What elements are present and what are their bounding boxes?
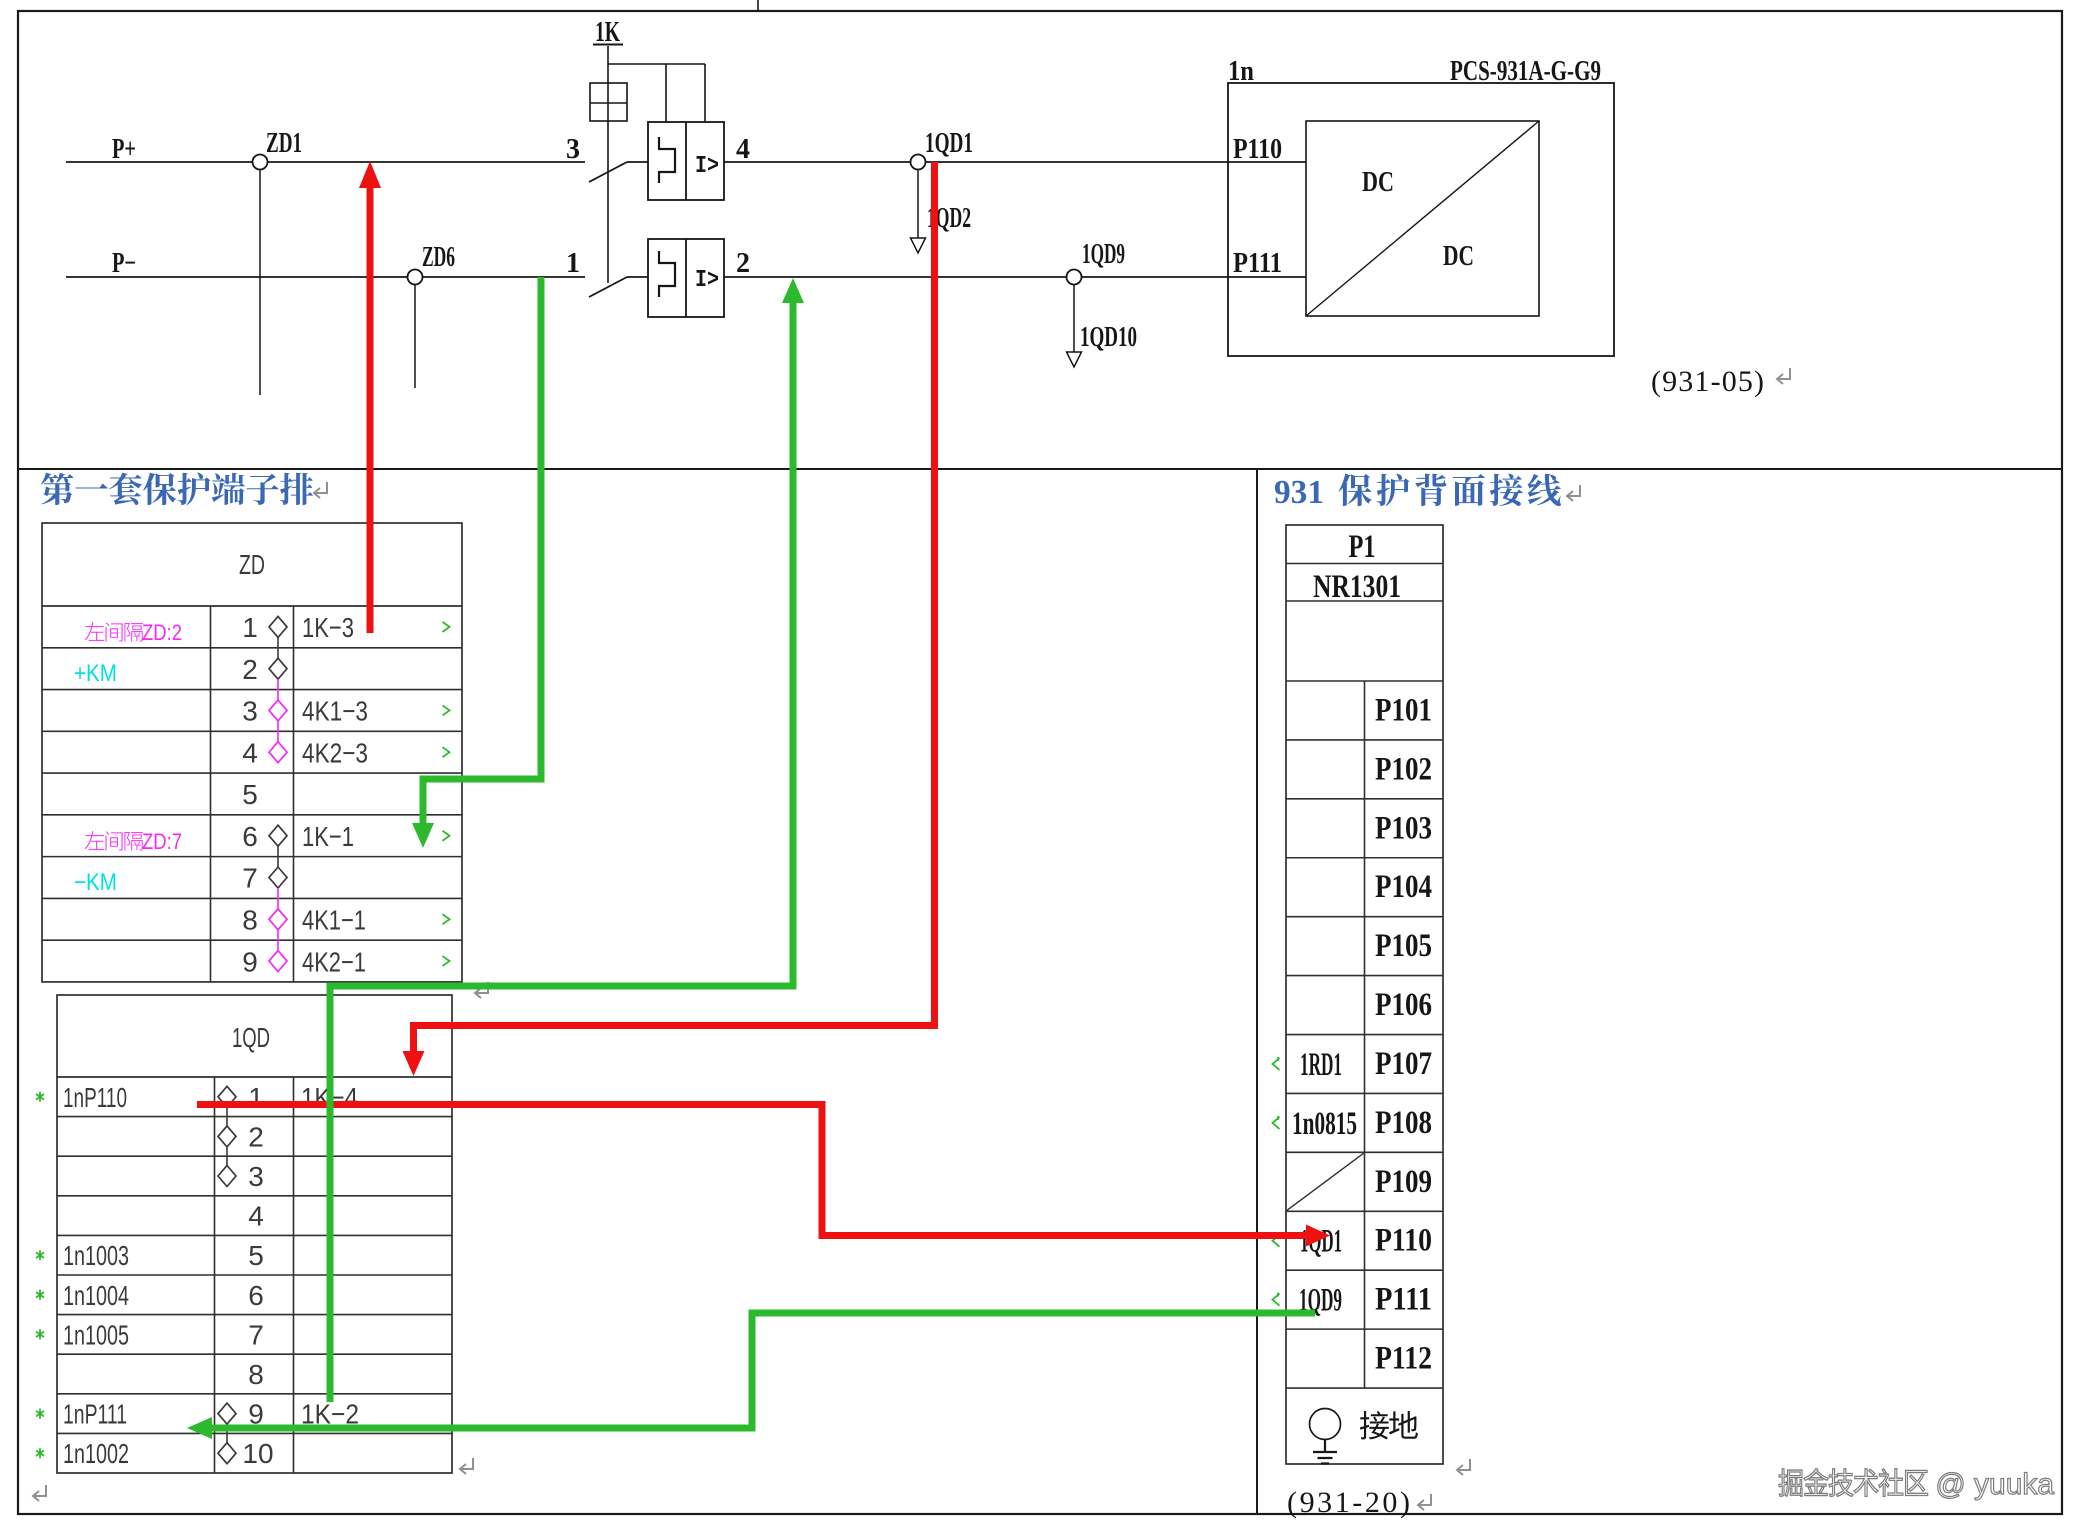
svg-text:I>: I> (695, 153, 719, 180)
arrow 1QD10 open triangle (1067, 352, 1082, 367)
svg-text:10: 10 (242, 1438, 273, 1469)
node ZD6 (408, 270, 423, 285)
svg-text:1nP111: 1nP111 (63, 1399, 127, 1430)
green arrowhead left into 1nP111 (187, 1417, 212, 1439)
svg-text:P111: P111 (1233, 248, 1282, 279)
red arrowhead right into P110 (1306, 1225, 1330, 1247)
svg-text:ZD:7: ZD:7 (142, 829, 182, 854)
1QD terminal 3 diamond (218, 1166, 236, 1187)
1QD row 9 green star (36, 1409, 44, 1419)
switch blade 1K upper (589, 162, 627, 182)
1QD terminal 10 diamond (218, 1443, 236, 1464)
ZD jumper 8-9 (277, 930, 279, 951)
svg-text:2: 2 (736, 248, 750, 279)
switch blade 1K lower (589, 277, 627, 297)
return mark bottom left (33, 1485, 46, 1501)
svg-text:DC: DC (1443, 241, 1474, 272)
svg-text:3: 3 (248, 1161, 264, 1192)
1QD row 5 green star (36, 1250, 44, 1260)
svg-text:P103: P103 (1375, 810, 1432, 846)
svg-text:P112: P112 (1375, 1341, 1432, 1377)
svg-text:1: 1 (566, 248, 580, 279)
svg-text:3: 3 (242, 696, 258, 727)
svg-text:8: 8 (248, 1359, 264, 1390)
svg-text:PCS-931A-G-G9: PCS-931A-G-G9 (1450, 56, 1601, 87)
wire 2 to P111 (724, 276, 1306, 278)
wire ZD6 stub (414, 285, 416, 389)
ZD terminal 8 diamond (269, 909, 287, 930)
svg-text:I>: I> (695, 267, 719, 294)
return mark after (931-05) (1777, 368, 1790, 384)
svg-text:(931-05): (931-05) (1651, 365, 1764, 398)
green wire terminal2 to 1QD9 (330, 301, 793, 1402)
wire 1QD10 stem (1073, 285, 1075, 353)
ZD row 1 green chevron (443, 622, 450, 632)
breaker 1K top branch (608, 64, 705, 122)
ZD terminal 2 diamond (269, 658, 287, 679)
svg-text:7: 7 (242, 863, 258, 894)
svg-text:P108: P108 (1375, 1105, 1432, 1141)
DC-DC converter box (1306, 121, 1539, 316)
heading first protection terminal strip (41, 473, 73, 505)
svg-text:P104: P104 (1375, 869, 1432, 905)
svg-text:5: 5 (248, 1240, 264, 1271)
P1 row P111 green mark (1273, 1293, 1280, 1306)
ZD row label 左间隔ZD:7 (85, 831, 105, 850)
1QD row 10 green star (36, 1448, 44, 1458)
red wire ZD1 arrowhead up (359, 161, 381, 188)
svg-text:1QD9: 1QD9 (1082, 239, 1125, 270)
watermark juejin community (1779, 1469, 1802, 1497)
top edge tick (757, 0, 759, 11)
P1 module table grid (1286, 525, 1443, 1464)
svg-text:5: 5 (242, 779, 258, 810)
svg-text:NR1301: NR1301 (1313, 569, 1401, 605)
thermal trip curve upper (659, 137, 675, 183)
1QD terminal 1 diamond (218, 1086, 236, 1107)
svg-text:P+: P+ (112, 134, 136, 165)
green arrowhead down into ZD6 row (412, 823, 434, 848)
svg-text:1QD: 1QD (232, 1022, 270, 1053)
ZD row 3 green chevron (443, 705, 450, 715)
ZD row 9 green chevron (443, 956, 450, 966)
svg-text:2: 2 (248, 1121, 264, 1152)
device 1n outline (1228, 83, 1614, 356)
svg-text:@ yuuka: @ yuuka (1927, 1468, 2054, 1501)
svg-text:P107: P107 (1375, 1046, 1432, 1082)
1QD jumper 2-3 (226, 1147, 228, 1166)
svg-text:1n1004: 1n1004 (63, 1280, 129, 1311)
ZD jumper 7-8 (277, 888, 279, 909)
1QD jumper 9-10 (226, 1424, 228, 1443)
ZD jumper 2-3 (277, 679, 279, 700)
svg-text:1: 1 (242, 612, 258, 643)
red wire ZD1 to 1K-3 (shaft) (367, 186, 374, 633)
svg-text:9: 9 (242, 946, 258, 977)
svg-text:4K2−3: 4K2−3 (302, 737, 368, 768)
svg-text:DC: DC (1362, 167, 1394, 198)
section separator horizontal (18, 468, 2062, 470)
svg-text:1QD1: 1QD1 (925, 128, 973, 159)
svg-text:1n: 1n (1228, 56, 1254, 87)
svg-text:1n0815: 1n0815 (1292, 1106, 1357, 1142)
return mark after (931-20) (1418, 1494, 1431, 1510)
arrow 1QD2 open triangle (911, 238, 926, 253)
svg-text:7: 7 (248, 1319, 264, 1350)
return mark after right heading (1567, 485, 1580, 501)
svg-text:1QD10: 1QD10 (1080, 322, 1137, 353)
ZD terminal 1 diamond (269, 616, 287, 637)
svg-text:P109: P109 (1375, 1164, 1432, 1200)
node 1QD9 (1067, 270, 1082, 285)
svg-text:1: 1 (248, 1082, 264, 1113)
svg-text:6: 6 (248, 1280, 264, 1311)
ZD terminal 4 diamond (269, 742, 287, 763)
label 接地 (1360, 1411, 1389, 1440)
node 1QD1 (911, 155, 926, 170)
breaker 1K label underline (593, 44, 623, 46)
svg-text:ZD:2: ZD:2 (142, 620, 182, 645)
ZD terminal 6 diamond (269, 825, 287, 846)
red arrowhead down into 1QD (403, 1051, 425, 1076)
trip unit box lower (648, 239, 724, 317)
ZD jumper 3-4 (277, 721, 279, 742)
wire P+ bus (66, 161, 585, 163)
svg-text:8: 8 (242, 905, 258, 936)
svg-text:P110: P110 (1233, 134, 1282, 165)
wire 4 to P110 (724, 161, 1306, 163)
P1 row P110 green mark (1273, 1234, 1280, 1247)
svg-text:931: 931 (1274, 474, 1324, 511)
ZD jumper 1-2 (277, 637, 279, 658)
svg-text:P105: P105 (1375, 928, 1432, 964)
svg-text:4: 4 (242, 737, 258, 768)
wire 1QD2 stem (917, 170, 919, 239)
svg-text:1nP110: 1nP110 (63, 1082, 127, 1113)
svg-text:1n1002: 1n1002 (63, 1438, 129, 1469)
return mark after P1 table (1457, 1459, 1470, 1475)
svg-text:4: 4 (248, 1201, 264, 1232)
svg-text:P102: P102 (1375, 751, 1432, 787)
ZD terminal table grid (42, 523, 462, 982)
svg-text:1K: 1K (595, 17, 620, 48)
node ZD1 (253, 155, 268, 170)
svg-text:−KM: −KM (74, 869, 117, 896)
P109 spare diagonal (1287, 1153, 1364, 1210)
svg-text:4K1−3: 4K1−3 (302, 696, 368, 727)
svg-text:1n1005: 1n1005 (63, 1319, 129, 1350)
1QD row 6 green star (36, 1290, 44, 1300)
P1 row P108 green mark (1273, 1116, 1280, 1129)
1QD terminal table grid (57, 995, 452, 1473)
1QD row 7 green star (36, 1329, 44, 1339)
green wire P111 to 1nP111 (211, 1313, 1315, 1428)
green wire ZD6 to 1K-1 (423, 277, 541, 824)
svg-text:P110: P110 (1375, 1223, 1432, 1259)
return mark after ZD table (475, 982, 488, 998)
wire contact to trip box upper (627, 161, 648, 163)
ZD terminal 9 diamond (269, 951, 287, 972)
ZD row 8 green chevron (443, 914, 450, 924)
svg-text:ZD6: ZD6 (422, 242, 455, 273)
1QD jumper 1-2 (226, 1107, 228, 1126)
1QD terminal 2 diamond (218, 1126, 236, 1147)
svg-text:P1: P1 (1349, 529, 1376, 565)
svg-text:6: 6 (242, 821, 258, 852)
red wire 1QD1 to P110 (197, 1105, 1307, 1236)
1QD row 1 green star (36, 1092, 44, 1102)
ZD row label 左间隔ZD:2 (85, 622, 105, 641)
svg-text:1K−1: 1K−1 (302, 821, 354, 852)
svg-text:P111: P111 (1375, 1282, 1432, 1318)
svg-text:ZD: ZD (239, 549, 265, 580)
1QD terminal 9 diamond (218, 1403, 236, 1424)
ZD row 4 green chevron (443, 747, 450, 757)
breaker 1K coil box (590, 83, 627, 121)
svg-text:1n1003: 1n1003 (63, 1240, 129, 1271)
svg-text:P−: P− (112, 248, 136, 279)
svg-text:+KM: +KM (74, 660, 117, 687)
svg-text:1K−3: 1K−3 (302, 612, 354, 643)
svg-text:P101: P101 (1375, 692, 1432, 728)
svg-text:4K2−1: 4K2−1 (302, 946, 366, 977)
ZD terminal 3 diamond (269, 700, 287, 721)
green arrowhead up to P- wire (782, 278, 804, 303)
svg-text:1RD1: 1RD1 (1300, 1047, 1342, 1083)
return mark after left heading (314, 482, 327, 498)
svg-text:4K1−1: 4K1−1 (302, 905, 366, 936)
section separator vertical (1256, 469, 1258, 1514)
ZD row 6 green chevron (443, 831, 450, 841)
svg-text:3: 3 (566, 134, 580, 165)
svg-text:ZD1: ZD1 (266, 128, 302, 159)
ZD terminal 7 diamond (269, 867, 287, 888)
wire contact to trip box lower (627, 276, 648, 278)
svg-text:P106: P106 (1375, 987, 1432, 1023)
red wire 1QD1 to 1QD table (414, 162, 935, 1052)
ground symbol (1310, 1409, 1341, 1440)
trip unit box upper (648, 122, 724, 200)
wire ZD1 stub (259, 170, 261, 396)
svg-text:4: 4 (736, 134, 750, 165)
ZD jumper 6-7 (277, 846, 279, 867)
thermal trip curve lower (659, 251, 675, 297)
P1 row P107 green mark (1273, 1057, 1280, 1070)
return mark after 1QD table (460, 1458, 473, 1474)
svg-text:2: 2 (242, 654, 258, 685)
svg-text:(931-20): (931-20) (1287, 1486, 1410, 1519)
breaker 1K linkage line (607, 46, 609, 283)
wire P- bus (66, 276, 585, 278)
